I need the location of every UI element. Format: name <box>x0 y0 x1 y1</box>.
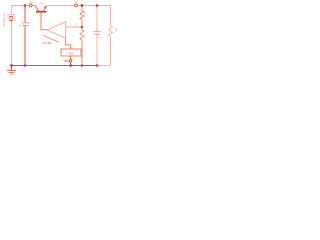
svg-text:Vo: Vo <box>74 0 78 4</box>
node GND bottom junction <box>69 64 72 67</box>
svg-text:+: + <box>14 7 16 10</box>
node C1 bottom junction <box>24 64 27 67</box>
svg-text:V Ref: V Ref <box>66 51 73 55</box>
svg-text:Battery: Battery <box>2 12 6 26</box>
svg-text:Vin: Vin <box>29 1 33 4</box>
label OP AMP leader <box>43 35 59 42</box>
svg-text:Co: Co <box>98 35 102 39</box>
wire left rail <box>11 6 13 66</box>
wire feedback <box>66 26 82 28</box>
ground <box>7 66 16 75</box>
battery BT1 <box>7 15 14 21</box>
node ground-left junction <box>10 64 13 67</box>
wire V-ref input <box>66 38 71 49</box>
transistor Q1 <box>35 6 46 12</box>
node R2 bottom junction <box>81 64 84 67</box>
svg-text:R1: R1 <box>84 12 88 16</box>
node Vin junction <box>24 4 27 7</box>
terminal GND ring <box>70 60 72 62</box>
wire base stem <box>41 13 47 30</box>
resistor R1 <box>80 6 84 28</box>
svg-text:C: C <box>19 23 21 27</box>
resistor R2 <box>80 27 84 66</box>
wire GND drop <box>70 56 72 66</box>
node feedback junction <box>81 26 84 29</box>
wire bottom rail <box>12 65 98 67</box>
svg-text:R2: R2 <box>75 24 79 26</box>
capacitor C1 <box>21 6 29 66</box>
wire right rail upper <box>110 6 112 27</box>
voltage reference box <box>61 49 81 56</box>
op-amp U1 <box>47 22 65 38</box>
terminal Vout ring <box>75 4 78 7</box>
svg-text:GND: GND <box>64 59 70 63</box>
wire to transistor collector <box>32 5 35 7</box>
terminal Vin ring <box>29 4 32 7</box>
wire top rail left <box>12 5 30 7</box>
node C2 top junction <box>96 4 99 7</box>
capacitor C2 <box>93 6 101 66</box>
wire bottom rail right <box>97 65 111 67</box>
svg-text:RL: RL <box>114 28 118 34</box>
wire right rail lower <box>110 36 112 65</box>
svg-text:Q1: Q1 <box>40 1 44 5</box>
svg-text:OP AMP: OP AMP <box>43 41 52 45</box>
resistor RL <box>109 26 113 36</box>
node R1 top junction <box>81 4 84 7</box>
wire top rail right <box>47 5 111 7</box>
node C2 bottom junction <box>96 64 99 67</box>
